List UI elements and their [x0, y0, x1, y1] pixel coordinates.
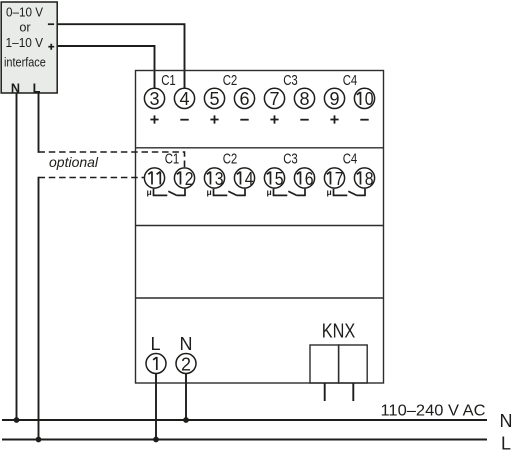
wire: interface N down to N bus: [16, 93, 18, 420]
svg-text:μ: μ: [147, 187, 152, 197]
terminal 15: [264, 168, 284, 189]
terminal 13: [204, 168, 224, 189]
svg-text:110–240 V AC: 110–240 V AC: [381, 402, 486, 419]
terminal 14: [234, 168, 254, 189]
relay contact K1 (terminals 11-12): [147, 187, 186, 197]
svg-text:N: N: [11, 82, 20, 96]
junction dot terminal 2 on N bus: [183, 417, 189, 423]
svg-text:3: 3: [149, 89, 159, 109]
svg-text:1–10 V: 1–10 V: [6, 36, 44, 50]
junction dot interface N on N bus: [14, 417, 20, 423]
terminal 10: [354, 88, 374, 109]
KNX terminal block left: [310, 345, 339, 383]
interface box U1 (0-10V / 1-10V interface): [1, 2, 57, 96]
svg-text:C3: C3: [283, 151, 298, 167]
svg-text:μ: μ: [327, 187, 332, 197]
svg-text:5: 5: [209, 89, 219, 109]
svg-text:2: 2: [185, 169, 194, 189]
wire: from lower dashed branch down to L bus: [38, 177, 40, 440]
terminal 1: [146, 354, 166, 374]
dashed optional wire to terminal 12: [39, 152, 185, 168]
wire: interface plus to terminal 3: [57, 46, 155, 89]
terminal 6: [234, 88, 254, 109]
terminal 2: [176, 354, 196, 375]
terminal 16: [294, 168, 314, 189]
divider line 1: [136, 147, 384, 149]
svg-text:C1: C1: [165, 151, 180, 167]
svg-text:optional: optional: [49, 154, 99, 170]
svg-text:L: L: [150, 334, 160, 354]
relay contact K4 (terminals 17-18): [327, 187, 366, 197]
junction dot terminal 1 on L bus: [153, 437, 159, 443]
terminal 18: [354, 168, 374, 189]
terminal 11: [144, 168, 164, 188]
svg-text:8: 8: [299, 89, 309, 109]
wire: interface minus to terminal 4: [57, 24, 185, 89]
terminal 7: [264, 88, 284, 109]
wire: interface L down to optional dashed branch: [38, 93, 40, 153]
svg-text:8: 8: [365, 169, 374, 189]
svg-text:C2: C2: [223, 151, 238, 167]
svg-text:N: N: [500, 411, 512, 431]
KNX stub left: [324, 383, 326, 401]
svg-text:3: 3: [215, 169, 224, 189]
svg-text:4: 4: [245, 169, 254, 189]
svg-text:C4: C4: [343, 151, 358, 167]
svg-text:0–10 V: 0–10 V: [6, 6, 43, 20]
relay contact K2 (terminals 13-14): [207, 187, 246, 197]
terminal 12: [174, 168, 194, 189]
svg-text:6: 6: [239, 89, 249, 109]
terminal 17: [324, 168, 344, 189]
terminal 4: [174, 88, 194, 109]
svg-text:L: L: [501, 434, 511, 451]
svg-text:5: 5: [275, 169, 284, 189]
L bus line: [2, 439, 487, 441]
svg-text:C4: C4: [343, 73, 358, 89]
divider line 3: [136, 297, 384, 299]
svg-text:2: 2: [181, 354, 191, 374]
svg-text:N: N: [180, 334, 193, 354]
svg-text:6: 6: [305, 169, 314, 189]
terminal 3: [144, 88, 164, 109]
svg-text:4: 4: [179, 89, 189, 109]
svg-text:μ: μ: [207, 187, 212, 197]
svg-text:C1: C1: [161, 73, 176, 89]
divider line 2: [136, 225, 384, 227]
dashed optional wire to terminal 11: [39, 177, 145, 179]
terminal 8: [294, 88, 314, 109]
wire terminal 1 to L bus: [155, 373, 157, 439]
polarity marks row 1: [150, 115, 368, 123]
label plus terminal of interface: [48, 44, 54, 50]
svg-text:7: 7: [269, 89, 279, 109]
relay contact K3 (terminals 15-16): [267, 187, 306, 197]
svg-text:7: 7: [335, 169, 344, 189]
svg-text:interface: interface: [4, 55, 46, 69]
KNX stub right: [352, 383, 354, 401]
svg-text:0: 0: [365, 89, 374, 109]
label minus terminal of interface: [48, 23, 54, 25]
terminal 5: [204, 88, 224, 109]
KNX terminal block right: [339, 345, 368, 383]
wire terminal 2 to N bus: [185, 373, 187, 420]
terminal 9: [324, 88, 344, 109]
device outline (actuator box): [136, 71, 384, 384]
svg-text:μ: μ: [267, 187, 272, 197]
N bus line: [2, 419, 487, 421]
svg-text:KNX: KNX: [322, 320, 356, 342]
svg-text:or: or: [19, 21, 31, 35]
junction dot interface L on L bus: [36, 437, 42, 443]
svg-text:9: 9: [329, 89, 339, 109]
svg-text:C3: C3: [283, 73, 298, 89]
svg-text:C2: C2: [223, 73, 238, 89]
